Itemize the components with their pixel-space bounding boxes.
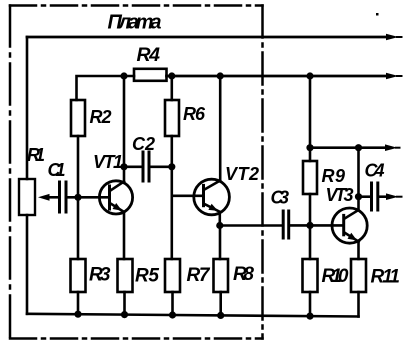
resistor R5 [118,259,133,292]
arrowhead rail B output [386,73,399,80]
scan speck [376,13,379,16]
wire R1 bottom to ground rail [26,215,29,314]
svg-text:R8: R8 [233,264,254,285]
svg-text:R1: R1 [27,145,45,165]
wire rail A top [27,36,390,39]
wire C2 right [151,166,172,169]
arrowhead rail A output [386,34,399,41]
wire C2 left [124,166,142,169]
wire R10 bottom [309,292,312,316]
wire left vertical from rail A to R1 [26,37,29,179]
svg-text:R7: R7 [187,265,211,286]
wire VT3 collector column [357,148,360,210]
svg-text:R4: R4 [137,44,161,66]
wire VT1 emitter down to R5 [123,212,126,259]
resistor R9 [303,161,317,194]
resistor R3 [71,259,86,292]
wire C3 right to VT3 base [290,224,344,227]
junction R3 / ground rail [74,311,81,318]
wire ground rail [27,314,359,317]
transistor VT1 emitter arrow [113,203,123,211]
svg-text:R11: R11 [371,267,401,288]
svg-text:R2: R2 [90,107,112,127]
resistor R7 [165,259,180,292]
svg-text:C2: C2 [132,134,155,154]
transistor VT3 [332,208,367,243]
junction R4-R6 / rail B [168,72,175,79]
junction C4 tap / VT3 collector [355,193,362,200]
transistor VT2 emitter arrow [208,204,218,211]
junction R5 / ground rail [121,311,128,318]
svg-text:VT1: VT1 [93,152,123,172]
junction VT3 collector / output line [355,144,362,151]
svg-text:C1: C1 [48,160,66,180]
wire VT2 emitter down [219,212,222,226]
resistor R1 (potentiometer body) [19,179,35,215]
wire output line mid [310,146,390,149]
svg-text:R9: R9 [322,166,346,186]
junction C2 left / VT1 collector [120,163,127,170]
junction VT2 emitter node [216,222,223,229]
wire emitter node to C3 [220,224,282,227]
resistor R10 [303,259,318,292]
svg-text:R10: R10 [322,266,349,287]
board outline left (dash-dot) [9,6,12,339]
arrowhead C4 output [386,193,399,200]
wire C4 right to arrow [379,195,390,198]
svg-text:R3: R3 [89,265,111,286]
R1 wiper arrow [38,194,50,201]
junction R8 / ground rail [217,312,224,319]
board outline top (dash-dot) [10,4,263,7]
junction R7 / ground rail [169,311,176,318]
arrowhead mid output line [385,144,398,151]
wire R7 bottom [171,292,174,315]
board outline bottom (dash-dot) [10,337,263,340]
capacitor C3 [283,211,289,238]
junction R9 top / output line [306,144,313,151]
wire R9 bottom to node [309,194,312,259]
wire rail B left segment [77,76,135,100]
wire VT2 base [172,195,204,198]
transistor VT1 [99,181,132,214]
wire R9 column from rail B [309,76,312,161]
wire R8 bottom [219,292,222,315]
board outline right (dash-dot) [261,6,264,339]
wire R6 top [171,76,174,100]
svg-text:VT2: VT2 [225,164,259,184]
wire VT2 collector up [219,76,222,181]
wire C1 to wiper arrow [47,196,58,199]
junction C2 right / R6-R7 [168,163,175,170]
transistor VT3 emitter arrow [348,233,358,241]
junction R9 branch / rail B [306,72,313,79]
resistor R6 [165,100,179,136]
svg-text:C4: C4 [365,161,385,181]
resistor R8 [214,259,229,292]
svg-text:Плата: Плата [108,12,162,34]
wire R3 bottom [77,292,80,314]
junction C3 / R9 / R10 / VT3 base [306,222,313,229]
wire C1 to VT1 base [68,196,110,199]
junction VT2 collector / rail B [217,72,224,79]
svg-text:C3: C3 [271,188,290,208]
wire R6 bottom to R7 [171,136,174,259]
junction VT1 collector / rail B [120,72,127,79]
svg-text:R6: R6 [183,104,206,124]
wire C4 left [359,195,371,198]
wire emitter node to R8 [219,226,222,260]
wire R2-R3 divider [77,136,80,259]
capacitor C4 [372,183,378,210]
resistor R4 [134,69,167,81]
svg-text:R5: R5 [135,266,159,287]
capacitor C2 [143,152,149,181]
svg-text:VT3: VT3 [326,185,354,205]
wire rail B right segment [167,75,391,78]
resistor R11 [351,259,366,292]
wire R5 bottom [123,292,126,315]
wire R11 bottom [357,292,360,317]
transistor VT2 [194,179,230,215]
junction R10 / ground rail [306,313,313,320]
capacitor C1 [60,182,67,212]
wire VT3 emitter to R11 [357,242,360,259]
junction VT1 base / R2-R3 divider [74,194,81,201]
wire VT1 collector up [123,76,126,182]
resistor R2 [71,100,85,136]
